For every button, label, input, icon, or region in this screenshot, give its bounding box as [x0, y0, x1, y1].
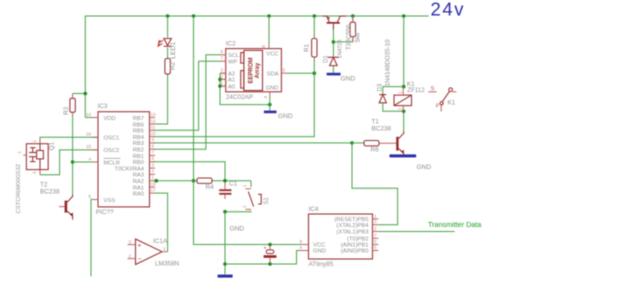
- wire R1 top: [313, 16, 315, 36]
- switch S1: [242, 184, 270, 209]
- node junction A1: [218, 78, 222, 82]
- svg-text:5: 5: [89, 194, 92, 199]
- svg-text:K1: K1: [448, 100, 456, 107]
- transistor Q3 T2 BC238: [40, 182, 73, 220]
- node junction IC2 GND: [268, 103, 272, 107]
- op-amp IC2 EEPROM 24C02AP: [220, 41, 287, 101]
- svg-text:RB1: RB1: [133, 154, 144, 160]
- wire RA2 to R4: [153, 180, 197, 182]
- wire S1 pin2 to C1 bottom: [225, 210, 251, 213]
- wire IC2 GND drop: [269, 97, 271, 111]
- svg-text:A0: A0: [228, 84, 235, 90]
- svg-text:Array: Array: [255, 62, 261, 78]
- svg-text:RA3: RA3: [133, 173, 144, 179]
- resistor R4: [197, 178, 214, 191]
- wire D3 bottom link: [383, 104, 404, 112]
- transistor Q1 T1 BC238: [372, 119, 405, 155]
- svg-text:16: 16: [86, 132, 92, 137]
- wire RB3 long to R6: [153, 142, 352, 144]
- svg-text:4: 4: [300, 245, 303, 250]
- svg-text:3: 3: [374, 219, 377, 224]
- svg-text:+: +: [264, 245, 267, 251]
- node junction MCLR: [71, 160, 75, 164]
- svg-text:(XTAL1)PB3: (XTAL1)PB3: [336, 230, 368, 236]
- diode D3 1N4148DO35-10: [378, 39, 392, 103]
- svg-text:3: 3: [152, 162, 155, 167]
- svg-text:LED1: LED1: [170, 42, 177, 59]
- svg-text:VCC: VCC: [266, 52, 278, 58]
- ground under D1: [327, 73, 356, 83]
- node junction gnd bottom: [223, 262, 227, 266]
- svg-text:A2: A2: [228, 71, 235, 77]
- svg-text:6: 6: [221, 49, 224, 54]
- wire v193 VCC line to IC4 pin8: [194, 16, 301, 245]
- svg-text:C1: C1: [229, 181, 238, 188]
- wire A2A1A0 tie: [220, 73, 270, 104]
- svg-text:SCL: SCL: [228, 53, 240, 59]
- svg-text:SDA: SDA: [267, 71, 279, 77]
- svg-text:24v: 24v: [431, 0, 466, 20]
- crystal Q1 resonator: [16, 139, 56, 214]
- node junction C1 top: [223, 179, 227, 183]
- svg-text:R2: R2: [170, 62, 177, 70]
- wire R5 bottom link: [333, 41, 352, 43]
- svg-text:GND: GND: [230, 226, 245, 233]
- svg-text:3: 3: [221, 68, 224, 73]
- resistor R5: [350, 16, 361, 43]
- svg-text:13: 13: [151, 112, 157, 117]
- svg-text:10: 10: [151, 131, 157, 136]
- svg-text:3: 3: [129, 239, 132, 244]
- svg-text:LM358N: LM358N: [155, 261, 180, 268]
- svg-text:4: 4: [89, 156, 92, 161]
- node junction A0: [218, 84, 222, 88]
- wire C1S1 gnd drop: [224, 212, 226, 275]
- wire R1 bottom: [313, 60, 315, 74]
- svg-text:1N4728: 1N4728: [337, 40, 343, 59]
- svg-text:OSC2: OSC2: [104, 148, 120, 154]
- svg-text:RB5: RB5: [133, 129, 144, 135]
- svg-text:1: 1: [374, 213, 377, 218]
- svg-text:VDD: VDD: [104, 116, 116, 122]
- svg-text:IC3: IC3: [98, 103, 108, 110]
- svg-text:6: 6: [152, 156, 155, 161]
- svg-text:IC4: IC4: [309, 206, 319, 213]
- pins: [220, 54, 226, 56]
- wire RA0 to opamp out: [155, 193, 168, 252]
- svg-text:T1: T1: [372, 119, 380, 126]
- node junction C1 bottom: [223, 210, 227, 214]
- node junction R3 top: [84, 92, 88, 96]
- svg-text:CSTCR6M00G53Z: CSTCR6M00G53Z: [16, 163, 22, 213]
- capacitor C1: [219, 181, 237, 200]
- svg-text:ATtiny85: ATtiny85: [309, 261, 334, 268]
- svg-text:GND: GND: [278, 113, 293, 120]
- svg-text:IC1A: IC1A: [153, 238, 168, 245]
- wire RB0 to C1 node: [153, 162, 225, 181]
- svg-text:T0CKI/RA4: T0CKI/RA4: [115, 166, 145, 172]
- svg-text:2: 2: [152, 169, 155, 174]
- svg-text:8: 8: [261, 45, 266, 48]
- wire OSC1 from crystal: [40, 137, 98, 139]
- svg-text:IC2: IC2: [226, 41, 236, 48]
- inner EEPROM array box: [244, 50, 263, 90]
- svg-text:18: 18: [151, 181, 157, 186]
- svg-text:12: 12: [151, 118, 157, 123]
- LED D2 LED1: [158, 39, 177, 59]
- wire VSS down: [91, 200, 98, 277]
- svg-text:OSC1: OSC1: [104, 136, 120, 142]
- ground bottom near C1: [218, 226, 245, 278]
- svg-text:17: 17: [151, 187, 157, 192]
- node junction SDA-R1: [313, 71, 317, 75]
- svg-text:R1: R1: [303, 44, 310, 52]
- svg-text:T2: T2: [40, 182, 48, 189]
- node junction rail-R1: [313, 14, 317, 18]
- svg-text:WP: WP: [228, 59, 237, 65]
- resistor R1: [303, 35, 317, 60]
- svg-text:BC238: BC238: [372, 126, 392, 133]
- wire VDD feed: [85, 117, 98, 119]
- op-amp U1 IC1A LM358N: [128, 238, 180, 268]
- svg-text:(XTAL2)PB4: (XTAL2)PB4: [336, 223, 369, 229]
- diode D1 zener 1N4728: [324, 40, 344, 66]
- svg-text:8: 8: [152, 144, 155, 149]
- wire WP net: [153, 61, 220, 130]
- node junction rail-v193: [192, 14, 196, 18]
- svg-text:GND: GND: [417, 164, 432, 171]
- svg-text:14: 14: [86, 112, 92, 117]
- svg-text:−: −: [138, 256, 142, 263]
- svg-text:R3: R3: [63, 106, 70, 115]
- node junction v193-R4line: [192, 179, 196, 183]
- node junction T3base-R5: [332, 40, 336, 44]
- switch K1 relay contact: [428, 86, 456, 112]
- svg-text:7: 7: [374, 233, 377, 238]
- wire IC2 VCC drop: [268, 16, 270, 45]
- wire SDA net to RB4: [287, 72, 314, 74]
- wire T3 base to D1: [332, 27, 334, 57]
- op-amp IC4 ATtiny85: [300, 206, 379, 268]
- svg-text:GND: GND: [313, 249, 326, 255]
- svg-text:RB3: RB3: [133, 141, 144, 147]
- svg-text:2: 2: [221, 74, 224, 79]
- wire R5 top: [352, 16, 354, 21]
- svg-text:1: 1: [163, 246, 166, 251]
- svg-text:7: 7: [221, 56, 224, 61]
- ground under T1: [390, 154, 432, 171]
- relay K1 ZF112 coil: [394, 81, 425, 111]
- wire PB3 transmitter data: [378, 231, 454, 233]
- svg-text:11: 11: [151, 125, 156, 130]
- svg-text:1: 1: [242, 184, 247, 187]
- svg-text:ZF112: ZF112: [407, 87, 425, 94]
- svg-text:Transmitter Data: Transmitter Data: [428, 220, 481, 229]
- wire 24v rail: [85, 16, 428, 118]
- svg-text:RB2: RB2: [133, 148, 144, 154]
- wire RB3net to R6 left: [352, 142, 364, 144]
- node junction rail-LED: [166, 14, 170, 18]
- resistor R2: [165, 59, 177, 75]
- node junction VCC-cap: [268, 243, 272, 247]
- svg-text:S: S: [431, 86, 435, 92]
- resistor R6: [364, 141, 396, 154]
- svg-text:3: 3: [32, 171, 37, 174]
- wire OSC2 from crystal: [40, 150, 98, 175]
- svg-text:RA0: RA0: [133, 191, 144, 197]
- node junction RA2 stub: [155, 179, 159, 183]
- svg-text:5k6: 5k6: [356, 32, 362, 42]
- svg-text:GND: GND: [266, 86, 279, 92]
- capacitor C2 polarized at IC4: [264, 245, 277, 262]
- svg-text:(T0)PB2: (T0)PB2: [347, 237, 369, 243]
- resistor R3: [63, 94, 76, 116]
- wire MCLR net R3 drop: [73, 93, 86, 95]
- svg-text:RB0: RB0: [133, 160, 144, 166]
- svg-text:EEPROM: EEPROM: [249, 57, 255, 83]
- svg-text:A1: A1: [228, 78, 235, 84]
- left pins: [93, 117, 99, 119]
- svg-text:D1: D1: [324, 55, 330, 63]
- svg-text:5: 5: [374, 245, 377, 250]
- wire relay feed: [403, 16, 405, 87]
- wire D1 to gnd: [332, 66, 334, 73]
- svg-text:VSS: VSS: [104, 198, 116, 204]
- transistor Q2 T3 BC556: [323, 16, 353, 50]
- svg-text:4: 4: [263, 96, 268, 99]
- wire relay to T1 collector: [403, 111, 405, 131]
- right pins: [150, 118, 156, 194]
- svg-text:+: +: [138, 242, 142, 249]
- svg-text:8: 8: [300, 239, 303, 244]
- op-amp IC3 PIC microcontroller: [86, 103, 156, 216]
- node junction relay pin2: [402, 110, 406, 114]
- svg-text:2: 2: [17, 151, 22, 154]
- svg-text:2: 2: [398, 107, 403, 110]
- svg-text:BC238: BC238: [40, 189, 60, 196]
- ground under IC2: [264, 111, 293, 120]
- node junction rail-R5: [351, 14, 355, 18]
- svg-text:1: 1: [152, 175, 155, 180]
- svg-text:RB6: RB6: [133, 122, 144, 128]
- wire LED-R2 vertical to RB6: [167, 16, 169, 38]
- svg-text:RB7: RB7: [133, 116, 144, 122]
- svg-text:7: 7: [152, 150, 155, 155]
- svg-text:1: 1: [398, 91, 403, 94]
- svg-text:S1: S1: [264, 196, 270, 204]
- svg-text:RA2: RA2: [133, 179, 144, 185]
- svg-text:9: 9: [152, 137, 155, 142]
- svg-text:6: 6: [374, 239, 377, 244]
- svg-text:GND: GND: [341, 75, 356, 82]
- svg-text:R6: R6: [371, 147, 380, 154]
- wire gnd line to IC4 pin4: [225, 251, 300, 265]
- node junction relay pin1: [402, 85, 406, 89]
- svg-text:2: 2: [129, 253, 132, 258]
- svg-text:2: 2: [242, 205, 247, 208]
- svg-text:T3: T3: [346, 42, 352, 50]
- node junction rail-IC2VCC: [267, 14, 271, 18]
- wire SCL net: [153, 55, 220, 149]
- svg-text:2: 2: [374, 226, 377, 231]
- svg-text:5: 5: [283, 68, 286, 73]
- svg-text:MCLR: MCLR: [104, 160, 120, 166]
- svg-text:1N4148DO35-10: 1N4148DO35-10: [385, 39, 392, 86]
- svg-text:(AIN0)PB0: (AIN0)PB0: [341, 249, 369, 255]
- svg-text:RB4: RB4: [133, 135, 145, 141]
- svg-text:1: 1: [221, 81, 224, 86]
- wire RB3 branch down to IC4 PB4: [352, 143, 398, 225]
- svg-text:PIC??: PIC??: [96, 209, 114, 216]
- svg-text:1: 1: [32, 140, 37, 143]
- wire D3 top link: [383, 87, 404, 94]
- svg-text:24C02AP: 24C02AP: [226, 94, 253, 101]
- svg-text:D3: D3: [378, 83, 384, 91]
- wire R4 to C1/S1 node: [212, 180, 251, 182]
- wire MCLR pin: [73, 161, 98, 163]
- node junction RB3-R6: [350, 141, 354, 145]
- node junction rail-relay: [402, 14, 406, 18]
- svg-text:Q1: Q1: [49, 142, 56, 151]
- svg-text:15: 15: [86, 144, 92, 149]
- svg-text:R4: R4: [206, 184, 215, 191]
- node junction cap bottom: [268, 262, 272, 266]
- wire S1 pin1 drop: [250, 181, 252, 187]
- svg-text:RA1: RA1: [133, 185, 144, 191]
- svg-text:BC556: BC556: [346, 24, 352, 43]
